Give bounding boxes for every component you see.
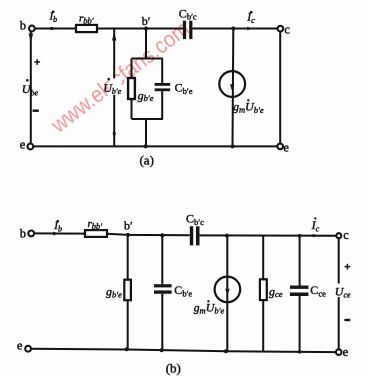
svg-text:c: c	[284, 23, 290, 37]
svg-text:(a): (a)	[139, 153, 153, 168]
svg-text:b′: b′	[124, 218, 133, 232]
svg-text:b: b	[20, 18, 26, 32]
svg-text:b′: b′	[142, 14, 151, 28]
svg-text:e: e	[343, 345, 349, 359]
svg-text:e: e	[283, 141, 289, 155]
svg-text:b: b	[20, 226, 26, 240]
svg-text:e: e	[20, 137, 26, 151]
svg-text:c: c	[343, 228, 349, 242]
svg-text:e: e	[17, 339, 23, 353]
svg-text:(b): (b)	[166, 361, 181, 376]
